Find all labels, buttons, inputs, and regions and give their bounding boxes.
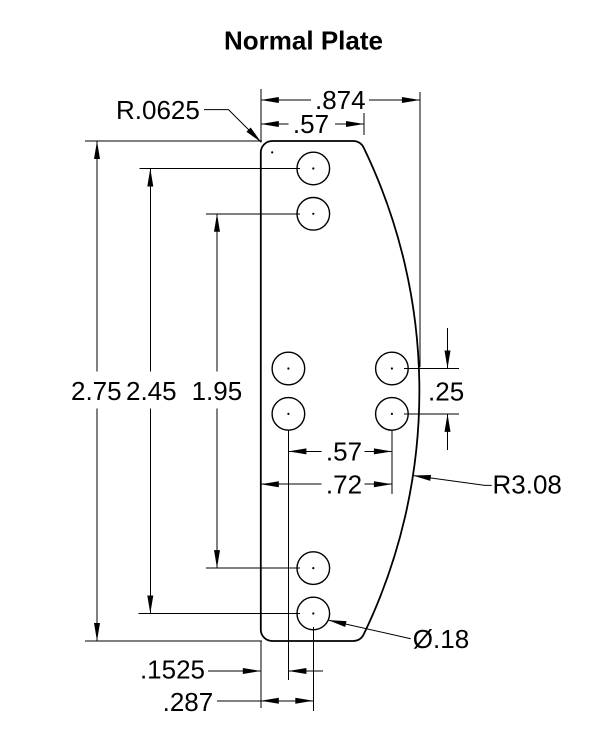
hole H3 mid-left-top: [272, 352, 305, 385]
dimension .25: [404, 328, 464, 450]
svg-text:R3.08: R3.08: [493, 470, 562, 500]
svg-text:.72: .72: [326, 469, 362, 499]
hole H1 top: [297, 152, 330, 185]
corner radius center mark: [271, 151, 273, 153]
svg-text:1.95: 1.95: [192, 376, 243, 406]
hole H2: [297, 198, 330, 231]
dimension .874: [261, 85, 420, 367]
radius callout R.0625: [116, 95, 263, 145]
hole H8 bottom: [297, 597, 330, 630]
dimension .57 top: [261, 109, 364, 139]
hole H7 bottom: [297, 552, 330, 585]
radius callout R3.08: [412, 470, 561, 500]
svg-text:R.0625: R.0625: [116, 95, 200, 125]
svg-text:.57: .57: [293, 109, 329, 139]
svg-text:.1525: .1525: [140, 654, 205, 684]
svg-text:Ø.18: Ø.18: [413, 624, 469, 654]
svg-text:2.75: 2.75: [71, 376, 122, 406]
plate outline: [261, 141, 420, 641]
dimension .72: [261, 469, 392, 499]
dimension .57 middle: [288, 430, 392, 680]
dimension .1525: [140, 641, 323, 708]
dimension 2.75: [71, 141, 262, 641]
hole H6 mid-right-bottom: [376, 398, 409, 431]
hole H5 mid-right-top: [376, 352, 409, 385]
dimension 1.95: [192, 214, 300, 568]
dimension .287: [163, 627, 314, 717]
dimension 2.45: [126, 169, 300, 614]
svg-text:.287: .287: [163, 687, 214, 717]
svg-text:Normal Plate: Normal Plate: [224, 26, 383, 56]
svg-text:.25: .25: [428, 377, 464, 407]
hole H4 mid-left-bottom: [272, 398, 305, 431]
svg-text:2.45: 2.45: [126, 376, 177, 406]
diameter callout Ø.18: [328, 617, 470, 654]
svg-text:.57: .57: [326, 437, 362, 467]
